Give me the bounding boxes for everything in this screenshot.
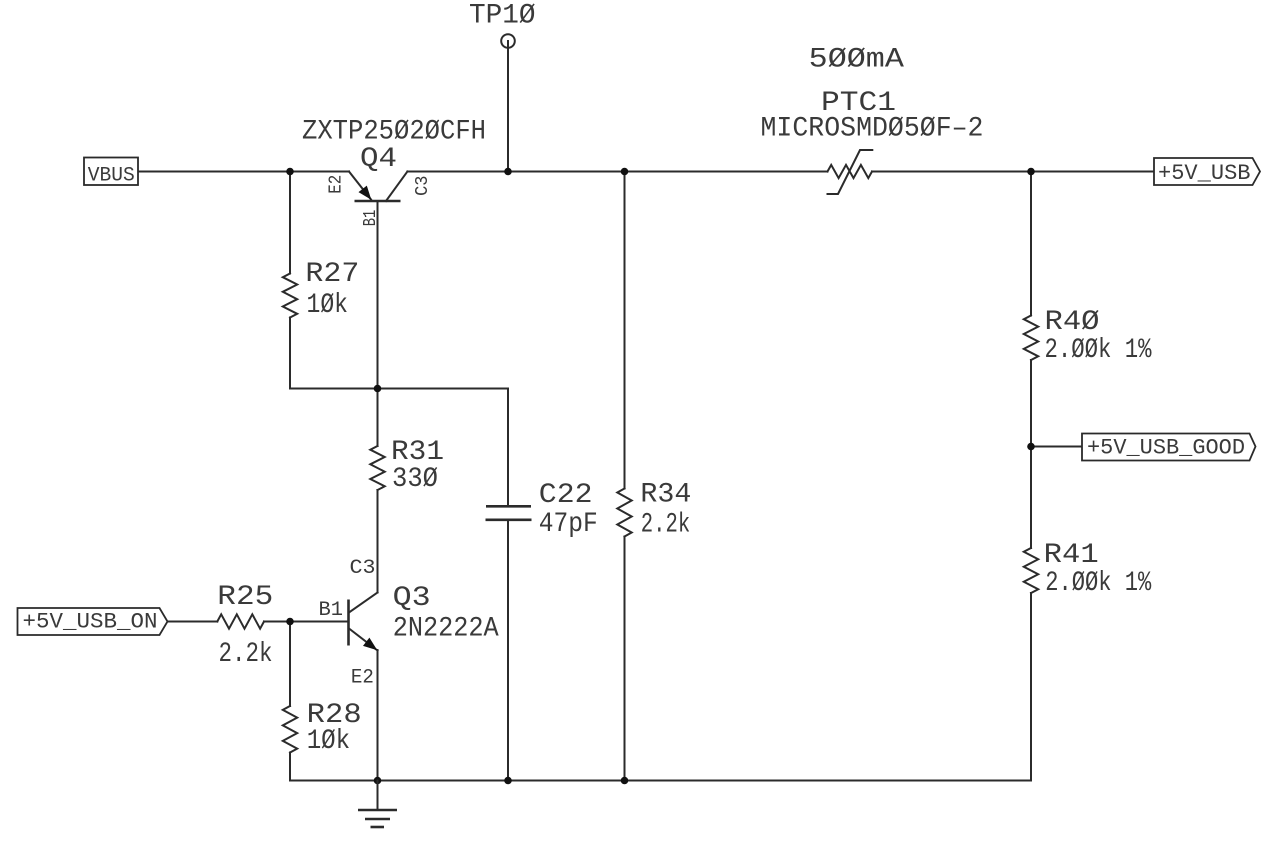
wire Q4 base down to node row	[377, 201, 379, 389]
wire Q3 emitter down to bus	[377, 650, 379, 781]
transistor Q4 base bar	[355, 200, 401, 203]
resistor R41 zigzag	[1024, 548, 1038, 593]
svg-text:ZXTP25Ø2ØCFH: ZXTP25Ø2ØCFH	[302, 117, 486, 148]
wire TP10 drop	[507, 41, 509, 172]
resistor R27 zigzag	[283, 274, 297, 318]
capacitor C22 bottom plate	[486, 518, 532, 521]
wire +5V_USB_ON flag to R25	[168, 621, 218, 623]
fuse PTC1 strike diagonal	[828, 150, 873, 194]
wire C22 top lead	[507, 389, 509, 506]
wire GOOD node stub to flag	[1031, 446, 1082, 448]
svg-text:MICROSMDØ5ØF–2: MICROSMDØ5ØF–2	[761, 114, 984, 145]
wire C22 bottom lead to bus	[507, 521, 509, 781]
svg-text:+5V_USB_GOOD: +5V_USB_GOOD	[1087, 436, 1245, 461]
node Q3 base junction	[286, 618, 294, 626]
test point TP10 circle	[501, 34, 515, 48]
wire right branch: top rail to R40	[1030, 172, 1032, 316]
svg-text:2.2k: 2.2k	[219, 639, 273, 670]
svg-text:+5V_USB_ON: +5V_USB_ON	[23, 610, 158, 635]
resistor R25 zigzag (horizontal)	[217, 614, 264, 628]
svg-text:C3: C3	[350, 557, 376, 580]
wire R27 bottom lead to node row	[289, 318, 291, 389]
transistor Q3 base bar	[347, 600, 350, 646]
port +5V_USB_ON flag	[18, 608, 168, 635]
node C22 bottom junction	[504, 777, 512, 785]
node gnd/Q3 emitter junction	[374, 777, 382, 785]
svg-text:33Ø: 33Ø	[392, 464, 438, 495]
svg-text:5ØØmA: 5ØØmA	[809, 45, 904, 76]
node VBUS rail junction	[286, 168, 294, 176]
svg-text:TP1Ø: TP1Ø	[469, 1, 536, 32]
port VBUS box	[84, 158, 138, 186]
svg-text:B1: B1	[319, 599, 344, 622]
wire top rail left: VBUS to Q4 emitter	[138, 171, 349, 173]
svg-text:C22: C22	[539, 480, 593, 511]
transistor Q4 emitter line	[349, 172, 371, 200]
port +5V_USB_GOOD flag	[1082, 434, 1256, 461]
fuse PTC1 zigzag	[828, 165, 873, 178]
resistor R34 zigzag	[617, 489, 631, 537]
transistor Q3 collector line	[349, 593, 378, 613]
wire top rail right: PTC1 to +5V_USB flag	[872, 171, 1154, 173]
transistor Q4 emitter arrow	[359, 186, 372, 200]
wire top rail mid: Q4 collector to PTC1	[407, 171, 827, 173]
svg-text:2.2k: 2.2k	[641, 510, 690, 541]
wire R28 bottom to bus	[289, 753, 291, 781]
svg-text:2.ØØk 1%: 2.ØØk 1%	[1045, 335, 1152, 366]
capacitor C22 top plate	[486, 505, 531, 508]
node Q4 base row junction	[374, 385, 382, 393]
port +5V_USB flag	[1154, 158, 1260, 185]
svg-text:R41: R41	[1044, 540, 1099, 571]
wire R27 branch: junction down to R27	[289, 172, 291, 274]
wire GOOD node to R41	[1030, 447, 1032, 549]
svg-text:47pF: 47pF	[539, 509, 598, 540]
svg-text:Q4: Q4	[360, 144, 397, 175]
svg-text:2N2222A: 2N2222A	[393, 614, 499, 645]
transistor Q4 collector line	[386, 172, 407, 202]
wire node row horizontal: R27 to C22 top	[290, 388, 508, 390]
node TP10 rail junction	[504, 168, 512, 176]
wire R34 branch top	[624, 172, 626, 489]
svg-text:R25: R25	[217, 582, 273, 613]
node R34 bottom junction	[621, 777, 629, 785]
node PTC out junction	[1027, 168, 1035, 176]
svg-text:E2: E2	[327, 175, 347, 194]
svg-text:R27: R27	[305, 259, 359, 290]
svg-text:1Øk: 1Øk	[307, 726, 351, 757]
svg-text:VBUS: VBUS	[88, 165, 135, 188]
resistor R28 zigzag	[283, 706, 297, 753]
svg-text:+5V_USB: +5V_USB	[1158, 161, 1251, 186]
svg-text:C3: C3	[413, 176, 433, 196]
transistor Q3 emitter line	[349, 629, 378, 651]
wire R31 bottom to Q3 collector	[377, 490, 379, 593]
wire R34 bottom to bus	[624, 537, 626, 781]
wire R25 to Q3 base	[264, 621, 349, 623]
transistor Q3 emitter arrow	[363, 638, 377, 651]
resistor R31 zigzag	[370, 446, 384, 490]
wire node row to R31 top	[377, 389, 379, 447]
svg-text:R4Ø: R4Ø	[1045, 307, 1100, 338]
wire bottom bus	[290, 780, 1031, 782]
svg-text:1Øk: 1Øk	[307, 290, 349, 321]
wire R40 to GOOD node	[1030, 360, 1032, 447]
ground symbol	[358, 781, 397, 828]
node +5V_USB_GOOD junction	[1027, 443, 1035, 451]
wire R41 bottom to bus corner	[1030, 593, 1032, 781]
node R34 rail junction	[621, 168, 629, 176]
svg-text:B1: B1	[361, 210, 381, 227]
wire R28 top lead from base node	[289, 622, 291, 707]
svg-text:R34: R34	[640, 479, 691, 510]
svg-text:E2: E2	[351, 667, 374, 690]
svg-text:Q3: Q3	[393, 583, 431, 614]
svg-text:2.ØØk 1%: 2.ØØk 1%	[1045, 568, 1151, 599]
resistor R40 zigzag	[1024, 316, 1038, 361]
